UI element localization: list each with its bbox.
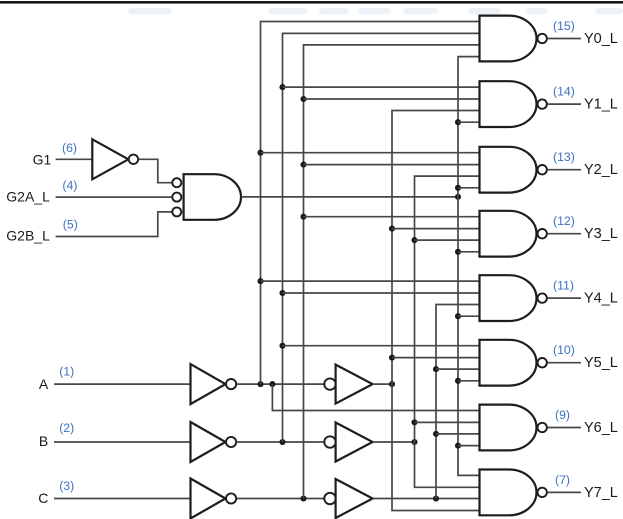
- wire B_L to Y4 input 2: [283, 292, 480, 294]
- junction EN to Y3: [455, 249, 461, 255]
- svg-text:(11): (11): [553, 279, 574, 293]
- junction A_L to Y6 branch: [269, 381, 275, 387]
- junction C_L to up bus: [300, 495, 306, 501]
- wire C_L vertical bus: [304, 45, 480, 499]
- inverter U1A output bubble: [226, 379, 236, 389]
- svg-text:(2): (2): [59, 421, 74, 435]
- wire EN to Y5 input 4: [458, 380, 480, 382]
- nand Y4 output bubble: [538, 293, 547, 302]
- wire Y2_L output: [547, 169, 581, 171]
- nand gate Y3: [480, 211, 537, 257]
- junction A to Y3: [389, 226, 395, 232]
- junction B true bus: [411, 439, 417, 445]
- svg-text:Y4_L: Y4_L: [584, 291, 618, 307]
- junction A to Y5: [389, 355, 395, 361]
- wire C true vertical bus: [436, 305, 480, 499]
- wire Y5_L output: [547, 362, 581, 364]
- wire EN to Y4 input 4: [458, 315, 480, 317]
- nand gate Y7: [480, 470, 537, 516]
- svg-text:G2B_L: G2B_L: [6, 228, 50, 244]
- svg-text:(13): (13): [553, 150, 575, 164]
- svg-text:B: B: [39, 433, 48, 449]
- wire B to Y3 input 3: [415, 239, 480, 241]
- junction B to Y6: [411, 419, 417, 425]
- junction C to Y6: [433, 431, 439, 437]
- wire A_L net: [237, 383, 325, 385]
- wire A_L branch to Y6 input 1: [272, 384, 479, 410]
- junction B_L to Y1: [279, 84, 285, 90]
- wire Y3_L output: [547, 233, 581, 235]
- wire EN vertical bus: [458, 57, 480, 476]
- junction C true bus: [433, 495, 439, 501]
- wire C_L to Y2 input 2: [304, 164, 480, 166]
- wire A_L vertical bus: [261, 22, 480, 385]
- nand Y2 output bubble: [538, 165, 547, 174]
- svg-text:(4): (4): [62, 179, 77, 193]
- svg-text:(12): (12): [553, 214, 575, 228]
- nand gate Y2: [480, 147, 537, 193]
- svg-text:(14): (14): [553, 85, 575, 99]
- wire C to Y6 input 3: [436, 433, 480, 435]
- wire C input: [54, 498, 191, 500]
- nand Y7 output bubble: [538, 488, 547, 497]
- svg-text:Y2_L: Y2_L: [584, 162, 618, 178]
- wire A_L to Y2 input 1: [261, 152, 480, 154]
- wire A true vertical bus: [392, 111, 480, 511]
- buffer U4C input bubble: [324, 493, 335, 504]
- junction C to Y5: [433, 366, 439, 372]
- nand gate Y5: [480, 340, 537, 386]
- buffer U4B (B true): [336, 423, 373, 462]
- wire Y6_L output: [547, 427, 581, 429]
- buffer U4A input bubble: [324, 378, 335, 389]
- inverter U2A (G1): [92, 139, 128, 179]
- buffer U4C (C true): [336, 479, 373, 518]
- wire G2B_L to enable AND input 3: [56, 212, 172, 237]
- buffer U4A (A true): [336, 365, 373, 404]
- wire EN to Y1 input 4: [458, 121, 480, 123]
- wire A_L to Y4 input 1: [261, 280, 480, 282]
- buffer U4B input bubble: [324, 436, 335, 447]
- wire B_L to Y5 input 1: [283, 345, 480, 347]
- junction A_L to up bus: [257, 381, 263, 387]
- wire G2A_L to enable AND input 2: [56, 196, 172, 198]
- junction EN to Y4: [455, 313, 461, 319]
- svg-text:(5): (5): [63, 218, 78, 232]
- junction C_L to Y2: [300, 162, 306, 168]
- svg-text:(10): (10): [553, 343, 575, 357]
- svg-text:Y7_L: Y7_L: [584, 485, 618, 501]
- nand Y0 output bubble: [538, 34, 547, 43]
- wire EN to Y6 input 4: [458, 445, 480, 447]
- wire A true to bus: [373, 383, 392, 385]
- svg-text:(3): (3): [59, 479, 74, 493]
- svg-text:C: C: [38, 490, 48, 506]
- svg-text:(7): (7): [555, 473, 570, 487]
- wire Y4_L output: [547, 297, 581, 299]
- wire EN to Y3 input 4: [458, 251, 480, 253]
- svg-text:Y1_L: Y1_L: [584, 97, 618, 113]
- wire Y1_L output: [547, 103, 581, 105]
- inverter U2A output bubble: [129, 155, 138, 164]
- wire G1_L to enable AND input 1: [139, 159, 172, 182]
- enable AND gate U3: [184, 174, 241, 220]
- wire A to Y3 input 2: [392, 228, 480, 230]
- junction A_L to Y4: [257, 278, 263, 284]
- inverter U1A (A): [191, 364, 226, 404]
- wire C_L to Y3 input 1: [304, 216, 480, 218]
- junction EN feed: [455, 194, 461, 200]
- junction A_L to Y2: [257, 150, 263, 156]
- wire B_L vertical bus: [283, 33, 480, 442]
- svg-text:G2A_L: G2A_L: [6, 188, 50, 204]
- svg-text:Y6_L: Y6_L: [584, 420, 618, 436]
- nand gate Y6: [480, 405, 537, 451]
- top border rule: [0, 1, 623, 4]
- svg-text:(1): (1): [59, 365, 74, 379]
- nand Y3 output bubble: [538, 229, 547, 238]
- nand Y6 output bubble: [538, 423, 547, 432]
- junction B_L to Y5: [279, 343, 285, 349]
- nand Y5 output bubble: [538, 358, 547, 367]
- nand gate Y4: [480, 275, 537, 321]
- nand Y1 output bubble: [538, 99, 547, 108]
- junction B to Y3: [411, 237, 417, 243]
- inverter U1B output bubble: [226, 437, 236, 447]
- enable AND gate U3 input bubbles: [172, 178, 181, 187]
- junction EN to Y6: [455, 443, 461, 449]
- wire B_L net: [237, 441, 325, 443]
- svg-text:A: A: [39, 376, 49, 392]
- wire B true to bus: [373, 441, 415, 443]
- wire C_L to Y1 input 2: [304, 98, 480, 100]
- wire C true to Y7 input 3: [373, 498, 480, 500]
- junction A true bus: [389, 381, 395, 387]
- junction EN to Y2: [455, 185, 461, 191]
- wire B input: [54, 441, 191, 443]
- wire C to Y5 input 3: [436, 368, 480, 370]
- svg-text:(15): (15): [553, 19, 575, 33]
- inverter U1B (B): [191, 422, 226, 462]
- wire A input: [54, 383, 191, 385]
- inverter U1C (C): [191, 479, 226, 519]
- junction C_L to Y1: [300, 96, 306, 102]
- svg-text:Y0_L: Y0_L: [584, 31, 618, 47]
- inverter U1C output bubble: [226, 493, 236, 503]
- wire EN enable net: [241, 196, 458, 198]
- wire C_L net: [237, 498, 325, 500]
- wire A to Y5 input 2: [392, 357, 480, 359]
- junction C_L to Y3: [300, 214, 306, 220]
- wire B_L to Y1 input 1: [283, 86, 480, 88]
- svg-text:G1: G1: [33, 151, 52, 167]
- svg-text:Y5_L: Y5_L: [584, 355, 618, 371]
- junction EN to Y5: [455, 378, 461, 384]
- wire Y0_L output: [547, 38, 581, 40]
- wire B true vertical bus: [415, 176, 480, 487]
- wire B to Y6 input 2: [415, 421, 480, 423]
- svg-text:(9): (9): [555, 408, 570, 422]
- junction EN to Y1: [455, 119, 461, 125]
- faded header watermark: [128, 8, 172, 14]
- junction B_L to Y4: [279, 290, 285, 296]
- junction B_L to up bus: [279, 439, 285, 445]
- svg-text:(6): (6): [62, 141, 77, 155]
- wire Y7_L output: [547, 491, 581, 493]
- wire G1 input: [56, 158, 93, 160]
- svg-text:Y3_L: Y3_L: [584, 226, 618, 242]
- nand gate Y1: [480, 81, 537, 127]
- nand gate Y0: [480, 16, 537, 62]
- wire EN to Y2 input 4: [458, 187, 480, 189]
